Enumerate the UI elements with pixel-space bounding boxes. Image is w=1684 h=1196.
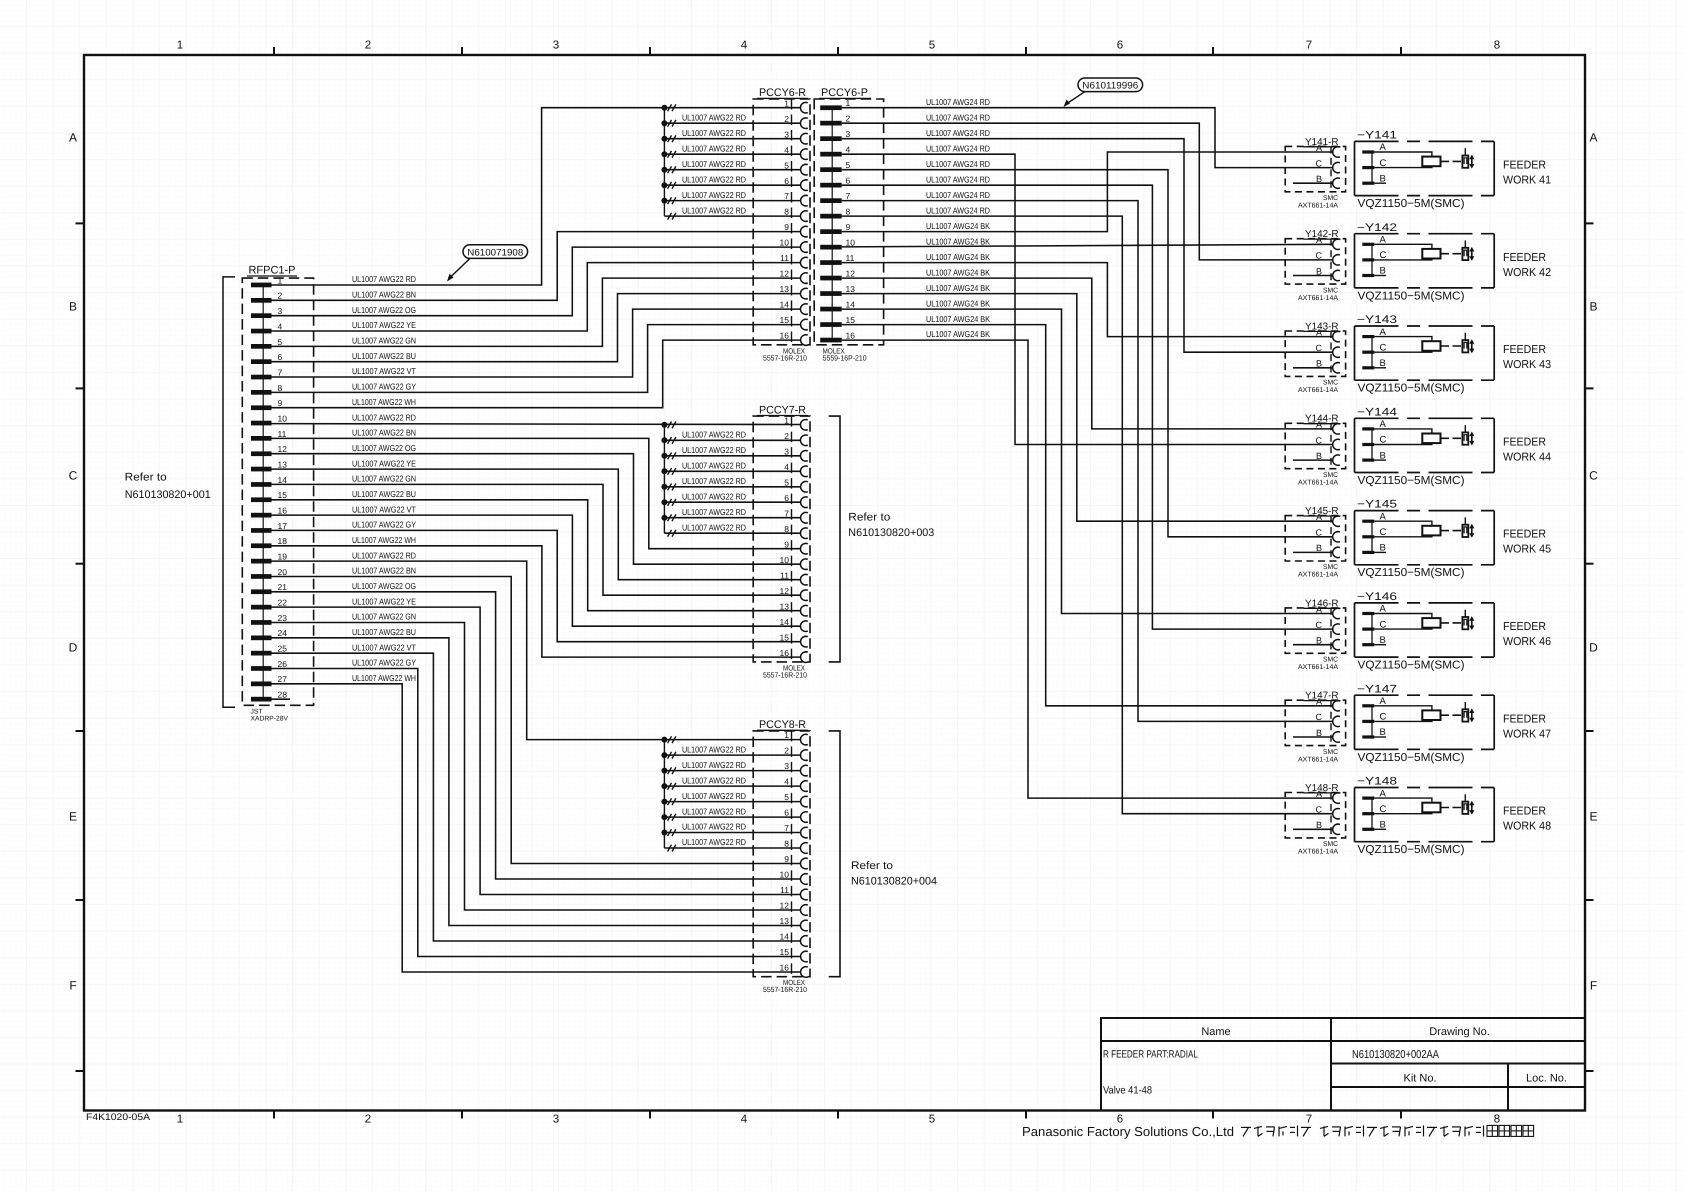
svg-text:AXT661-14A: AXT661-14A [1298, 479, 1338, 486]
PCCY7-R pin 4 contact [800, 466, 807, 477]
connector PCCY7-R body [753, 416, 810, 662]
RFPC1-P pin 18 contact [251, 543, 272, 548]
valve -Y148 terminal C [1362, 812, 1374, 815]
PCCY6-P pin 1 contact [820, 105, 842, 110]
Y145-R pin B contact [1333, 547, 1340, 557]
junction dot PCCY8 pin 4 [661, 783, 667, 789]
splice marks PCCY8 pin 7 [668, 829, 672, 836]
valve -Y145 pilot body [1462, 525, 1468, 537]
svg-text:2: 2 [278, 291, 283, 301]
svg-text:5: 5 [846, 160, 851, 170]
PCCY7-R pin 12 contact [800, 590, 807, 601]
Y142-R pin B stub wire [1293, 275, 1333, 277]
svg-text:AXT661-14A: AXT661-14A [1298, 849, 1338, 856]
valve -Y148 pilot inner [1464, 804, 1467, 810]
splice marks PCCY7 pin 4 [668, 468, 672, 475]
svg-text:UL1007 AWG22 RD: UL1007 AWG22 RD [682, 491, 746, 501]
connector Y147-R body [1285, 700, 1345, 745]
PCCY6-P pin 7 contact [820, 198, 842, 203]
PCCY6-R pin 16 contact [801, 335, 808, 346]
valve -Y146 terminal A [1362, 612, 1374, 615]
svg-text:SMC: SMC [1323, 472, 1338, 479]
svg-text:14: 14 [780, 932, 790, 942]
svg-text:10: 10 [780, 238, 790, 248]
svg-text:FEEDER: FEEDER [1503, 252, 1546, 264]
Y148-R pin B stub wire [1293, 828, 1333, 830]
wire RFPC1.12 to PCCY7.10 [272, 454, 801, 565]
splice marks PCCY8 pin 3 [668, 767, 672, 774]
bracket refer-to PCCY8 [829, 731, 840, 977]
valve -Y141 coil loop [1374, 152, 1432, 168]
svg-text:Loc. No.: Loc. No. [1526, 1073, 1567, 1085]
svg-text:SMC: SMC [1323, 287, 1338, 294]
Y146-R pin B stub wire [1293, 644, 1333, 646]
connector Y143-R body [1285, 331, 1345, 376]
valve -Y147 coil loop [1374, 706, 1432, 722]
Y146-R pin C contact [1333, 624, 1340, 634]
svg-text:UL1007 AWG22 RD: UL1007 AWG22 RD [682, 522, 746, 532]
svg-text:E: E [69, 810, 77, 824]
wire PCCY6-P.2 to Y142.C [842, 123, 1333, 260]
svg-text:28: 28 [278, 690, 288, 700]
junction dot PCCY6 pin 2 [661, 120, 667, 126]
splice marks PCCY6 pin 6 [668, 182, 672, 189]
connector Y147-R inner edge [1330, 700, 1332, 745]
svg-text:−Y141: −Y141 [1357, 130, 1397, 142]
frame tick right row 5 [1585, 1070, 1594, 1072]
bus wire PCCY7 pin 7 [664, 517, 800, 519]
RFPC1-P pin 6 contact [251, 359, 272, 364]
frame tick top col5/6 [1025, 47, 1027, 55]
valve -Y147 terminal A [1362, 704, 1374, 707]
svg-text:UL1007 AWG24 BK: UL1007 AWG24 BK [926, 221, 990, 231]
Y141-R pin C contact [1333, 162, 1340, 172]
connector PCCY6-R inner edge [791, 99, 793, 345]
svg-text:7: 7 [784, 508, 789, 518]
svg-text:12: 12 [846, 269, 856, 279]
svg-text:A: A [1316, 512, 1322, 522]
connector RFPC1-P centerline [262, 285, 264, 699]
valve -Y142 actuation arrow [1469, 247, 1474, 261]
svg-text:VQZ1150−5M(SMC): VQZ1150−5M(SMC) [1358, 660, 1465, 672]
svg-text:3: 3 [846, 129, 851, 139]
svg-text:FEEDER: FEEDER [1503, 621, 1546, 633]
svg-text:19: 19 [278, 552, 288, 562]
svg-text:13: 13 [780, 916, 790, 926]
PCCY8-R pin 16 contact [801, 967, 808, 978]
svg-text:UL1007 AWG22 OG: UL1007 AWG22 OG [352, 443, 416, 453]
svg-text:C: C [1316, 620, 1323, 630]
connector PCCY6-R label underline [757, 97, 808, 99]
svg-text:3: 3 [553, 1114, 559, 1126]
svg-text:6: 6 [278, 352, 283, 362]
svg-text:PCCY8-R: PCCY8-R [759, 719, 806, 731]
bus wire PCCY6 pin 3 [664, 138, 800, 140]
RFPC1-P pin 13 contact [251, 467, 272, 472]
svg-text:13: 13 [846, 284, 856, 294]
valve -Y146 pilot stem [1464, 610, 1466, 617]
svg-text:UL1007 AWG24 BK: UL1007 AWG24 BK [926, 236, 990, 246]
valve -Y141 pilot body [1462, 156, 1468, 168]
svg-text:SMC: SMC [1323, 380, 1338, 387]
connector Y148-R body [1285, 793, 1345, 838]
svg-text:UL1007 AWG24 BK: UL1007 AWG24 BK [926, 252, 990, 262]
svg-text:3: 3 [553, 40, 559, 52]
PCCY7-R pin 3 contact [800, 451, 807, 462]
svg-text:UL1007 AWG22 BU: UL1007 AWG22 BU [352, 351, 416, 361]
Y143-R pin C contact [1333, 347, 1340, 357]
connector Y142-R label underline [1304, 238, 1341, 240]
svg-text:UL1007 AWG22 YE: UL1007 AWG22 YE [352, 320, 416, 330]
svg-text:5: 5 [784, 160, 789, 170]
svg-text:UL1007 AWG22 OG: UL1007 AWG22 OG [352, 305, 416, 315]
valve -Y142 pilot inner [1464, 250, 1467, 256]
valve -Y141 body [1355, 141, 1495, 195]
valve -Y148 pin B lead [1374, 828, 1386, 830]
wire PCCY6-P.9 to Y141.A [842, 152, 1333, 232]
wire RFPC1.22 to PCCY8.11 [272, 607, 801, 894]
PCCY7-R pin 5 contact [801, 481, 808, 492]
svg-text:10: 10 [278, 414, 288, 424]
svg-text:2: 2 [365, 1114, 371, 1126]
Y146-R pin B contact [1333, 640, 1340, 650]
valve -Y144 body [1355, 418, 1495, 472]
splice marks PCCY7 pin 5 [668, 484, 672, 491]
svg-text:10: 10 [780, 870, 790, 880]
junction dot PCCY7 pin 4 [661, 468, 667, 474]
PCCY8-R pin 6 contact [801, 812, 808, 823]
connector Y146-R body [1285, 608, 1345, 653]
valve -Y144 coil loop [1374, 429, 1432, 445]
svg-text:4: 4 [278, 321, 283, 331]
splice marks PCCY7 pin 2 [668, 437, 672, 444]
frame tick left row 0 [76, 222, 85, 224]
connector PCCY6-P label underline [819, 97, 871, 99]
PCCY6-P pin 3 contact [820, 136, 842, 141]
svg-text:12: 12 [278, 444, 288, 454]
svg-text:UL1007 AWG24 RD: UL1007 AWG24 RD [926, 159, 990, 169]
valve -Y145 link dashes [1441, 530, 1462, 532]
svg-text:A: A [1316, 789, 1322, 799]
svg-text:1: 1 [784, 415, 789, 425]
junction dot PCCY8 pin 3 [661, 768, 667, 774]
valve -Y143 pilot inner [1464, 342, 1467, 348]
junction dot PCCY7 pin 1 [661, 422, 667, 428]
svg-text:1: 1 [784, 98, 789, 108]
junction dot PCCY8 pin 2 [661, 752, 667, 758]
svg-text:UL1007 AWG24 RD: UL1007 AWG24 RD [926, 205, 990, 215]
bus wire PCCY7 pin 3 [664, 455, 800, 457]
frame tick top col4/5 [837, 47, 839, 55]
valve -Y145 terminal C [1362, 535, 1374, 538]
valve -Y147 terminal C [1362, 720, 1374, 723]
frame tick bottom col7/8 [1400, 1111, 1402, 1119]
svg-text:9: 9 [846, 222, 851, 232]
svg-text:RFPC1-P: RFPC1-P [249, 265, 296, 277]
valve -Y148 pilot stem [1464, 794, 1466, 801]
frame tick right row 2 [1585, 563, 1594, 565]
valve -Y143 terminal A [1362, 335, 1374, 338]
RFPC1-P pin 21 contact [251, 589, 272, 594]
frame tick left row 1 [76, 387, 85, 389]
svg-text:UL1007 AWG22 RD: UL1007 AWG22 RD [682, 190, 746, 200]
splice marks PCCY8 pin 5 [668, 798, 672, 805]
svg-text:9: 9 [278, 398, 283, 408]
svg-text:21: 21 [278, 582, 288, 592]
splice marks PCCY6 pin 7 [668, 197, 672, 204]
valve -Y147 terminal B [1362, 735, 1374, 738]
svg-text:7: 7 [1306, 1114, 1312, 1126]
Y147-R pin A contact [1333, 701, 1340, 711]
svg-text:6: 6 [784, 176, 789, 186]
wire PCCY6-P.16 to Y148.A [842, 340, 1333, 798]
PCCY7-R pin 7 contact [801, 512, 808, 523]
PCCY8-R pin 13 contact [800, 920, 807, 931]
svg-text:UL1007 AWG22 BU: UL1007 AWG22 BU [352, 489, 416, 499]
RFPC1-P pin 3 contact [251, 313, 272, 318]
connector PCCY6-P centerline [831, 108, 833, 340]
splice marks PCCY7 pin 6 [668, 499, 672, 506]
frame tick top col6/7 [1212, 47, 1214, 55]
svg-text:PCCY6-P: PCCY6-P [821, 87, 868, 99]
connector PCCY8-R label underline [757, 729, 808, 731]
wire RFPC1.26 to PCCY8.15 [272, 669, 801, 957]
valve -Y144 terminal C [1362, 443, 1374, 446]
valve -Y143 terminal B [1362, 366, 1374, 369]
svg-text:C: C [69, 469, 78, 483]
connector Y145-R body [1285, 516, 1345, 561]
junction dot PCCY7 pin 5 [661, 484, 667, 490]
svg-text:A: A [1316, 420, 1322, 430]
PCCY7-R pin 13 contact [800, 605, 807, 616]
svg-text:A: A [69, 131, 77, 145]
svg-text:2: 2 [784, 746, 789, 756]
svg-text:20: 20 [278, 567, 288, 577]
RFPC1-P pin 25 contact [251, 651, 272, 656]
wire RFPC1.24 to PCCY8.13 [272, 638, 801, 926]
PCCY6-P pin 4 contact [820, 152, 842, 157]
junction dot PCCY8 pin 1 [661, 737, 667, 743]
svg-text:UL1007 AWG22 RD: UL1007 AWG22 RD [682, 174, 746, 184]
wire RFPC1.5 to PCCY6.12 [272, 278, 801, 346]
valve -Y144 actuation arrow [1469, 432, 1474, 446]
svg-text:14: 14 [278, 475, 288, 485]
valve -Y144 terminal A [1362, 427, 1374, 430]
frame tick bottom col2/3 [461, 1111, 463, 1119]
svg-text:Refer to: Refer to [851, 860, 893, 872]
svg-text:8: 8 [784, 839, 789, 849]
bracket refer-to RFPC1 [223, 277, 235, 707]
svg-text:UL1007 AWG24 RD: UL1007 AWG24 RD [926, 97, 990, 107]
connector RFPC1-P label underline [247, 275, 297, 277]
svg-text:8: 8 [784, 207, 789, 217]
svg-text:UL1007 AWG22 GN: UL1007 AWG22 GN [352, 474, 416, 484]
valve -Y141 solenoid coil [1422, 157, 1440, 167]
svg-text:SMC: SMC [1323, 749, 1338, 756]
bus wire PCCY6 pin 4 [664, 153, 800, 155]
bus wire PCCY8 pin 4 [664, 785, 800, 787]
RFPC1-P pin 9 contact [251, 405, 272, 410]
RFPC1-P pin 27 contact [251, 682, 272, 687]
wire PCCY6-P.8 to Y148.C [842, 216, 1333, 814]
svg-text:15: 15 [846, 315, 856, 325]
svg-text:UL1007 AWG22 RD: UL1007 AWG22 RD [682, 822, 746, 832]
valve -Y142 terminal link [1371, 244, 1373, 275]
svg-text:WORK 41: WORK 41 [1503, 175, 1551, 187]
valve -Y143 terminal link [1371, 337, 1373, 368]
wire RFPC1.10 to PCCY7 bus (common feed) [272, 423, 801, 426]
junction dot PCCY8 pin 5 [661, 799, 667, 805]
svg-text:UL1007 AWG24 BK: UL1007 AWG24 BK [926, 314, 990, 324]
svg-text:Refer to: Refer to [125, 472, 167, 484]
connector PCCY6-R body [753, 99, 810, 345]
PCCY6-P pin 6 contact [820, 183, 842, 188]
Y144-R pin C contact [1333, 439, 1340, 449]
svg-text:C: C [1316, 251, 1323, 261]
svg-text:WORK 45: WORK 45 [1503, 544, 1551, 556]
svg-text:12: 12 [780, 269, 790, 279]
wire RFPC1.6 to PCCY6.13 [272, 294, 801, 362]
RFPC1-P pin 19 contact [251, 559, 272, 564]
PCCY7-R pin 10 contact [800, 559, 807, 570]
splice marks PCCY8 pin 4 [668, 783, 672, 790]
splice marks PCCY6 pin 4 [668, 151, 672, 158]
svg-text:3: 3 [784, 446, 789, 456]
PCCY7-R pin 9 contact [800, 543, 807, 554]
svg-text:−Y145: −Y145 [1357, 499, 1397, 511]
valve -Y143 body [1355, 326, 1495, 380]
svg-text:A: A [1589, 131, 1597, 145]
svg-text:4: 4 [784, 145, 789, 155]
svg-text:UL1007 AWG22 YE: UL1007 AWG22 YE [352, 458, 416, 468]
svg-text:4: 4 [846, 145, 851, 155]
connector Y144-R label underline [1304, 423, 1341, 425]
connector Y144-R inner edge [1330, 423, 1332, 468]
connector Y145-R label underline [1304, 515, 1341, 517]
bus common wire PCCY7 vertical [663, 425, 665, 533]
svg-text:UL1007 AWG22 WH: UL1007 AWG22 WH [352, 673, 416, 683]
svg-text:N610130820+003: N610130820+003 [848, 527, 934, 539]
PCCY6-R pin 10 contact [800, 242, 807, 253]
Y144-R pin A contact [1333, 424, 1340, 434]
valve -Y142 solenoid coil [1422, 249, 1440, 259]
PCCY6-R pin 5 contact [801, 164, 808, 175]
svg-text:9: 9 [784, 539, 789, 549]
svg-text:6: 6 [784, 808, 789, 818]
RFPC1-P pin 20 contact [251, 574, 272, 579]
Y143-R pin B contact [1333, 363, 1340, 373]
PCCY7-R pin 16 contact [801, 652, 808, 663]
frame tick left row 5 [76, 1070, 85, 1072]
connector Y147-R label underline [1304, 700, 1341, 702]
splice marks PCCY8 pin 1 [668, 736, 672, 743]
Y148-R pin A contact [1333, 793, 1340, 803]
valve -Y143 link dashes [1441, 345, 1462, 347]
RFPC1-P pin 4 contact [251, 329, 272, 334]
bus wire PCCY8 pin 2 [664, 754, 800, 756]
svg-text:5557-16R-210: 5557-16R-210 [763, 353, 807, 362]
frame tick top col7/8 [1400, 47, 1402, 55]
valve -Y148 body [1355, 788, 1495, 842]
splice marks PCCY7 pin 3 [668, 453, 672, 460]
connector Y145-R inner edge [1330, 516, 1332, 561]
wire RFPC1.23 to PCCY8.12 [272, 623, 801, 911]
valve -Y146 link dashes [1441, 622, 1462, 624]
Y143-R pin B stub wire [1293, 367, 1333, 369]
PCCY8-R pin 7 contact [801, 827, 808, 838]
splice marks PCCY7 pin 7 [668, 514, 672, 521]
valve -Y148 coil loop [1374, 798, 1432, 814]
RFPC1-P pin 11 contact [251, 436, 272, 441]
RFPC1-P pin 8 contact [251, 390, 272, 395]
svg-text:UL1007 AWG22 GN: UL1007 AWG22 GN [352, 336, 416, 346]
splice marks PCCY8 pin 2 [668, 752, 672, 759]
bracket refer-to PCCY7 [829, 416, 840, 662]
svg-text:13: 13 [780, 284, 790, 294]
svg-text:D: D [69, 641, 78, 655]
wire RFPC1.7 to PCCY6.14 [272, 309, 801, 377]
frame tick top col3/4 [649, 47, 651, 55]
valve -Y141 pilot inner [1464, 158, 1467, 164]
valve -Y141 terminal A [1362, 150, 1374, 153]
svg-text:C: C [1316, 343, 1323, 353]
junction dot PCCY7 pin 6 [661, 499, 667, 505]
svg-text:2: 2 [784, 431, 789, 441]
svg-text:AXT661-14A: AXT661-14A [1298, 203, 1338, 210]
svg-text:F: F [69, 979, 76, 993]
valve -Y142 pilot body [1462, 248, 1468, 260]
svg-text:UL1007 AWG24 RD: UL1007 AWG24 RD [926, 190, 990, 200]
wire RFPC1.25 to PCCY8.14 [272, 653, 801, 941]
svg-text:UL1007 AWG22 RD: UL1007 AWG22 RD [352, 274, 416, 284]
PCCY8-R pin 3 contact [800, 765, 807, 776]
junction dot PCCY6 pin 7 [661, 198, 667, 204]
svg-text:UL1007 AWG24 RD: UL1007 AWG24 RD [926, 143, 990, 153]
svg-text:8: 8 [1494, 1114, 1500, 1126]
svg-text:WORK 44: WORK 44 [1503, 451, 1552, 463]
valve -Y142 pilot stem [1464, 241, 1466, 248]
PCCY7-R pin 1 contact [800, 420, 807, 431]
svg-text:15: 15 [278, 490, 288, 500]
frame tick top col2/3 [461, 47, 463, 55]
splice marks PCCY7 pin 1 [668, 422, 672, 429]
wire PCCY6-P.15 to Y147.A [842, 325, 1333, 706]
splice marks PCCY8 pin 8 [668, 845, 672, 852]
PCCY7-R pin 14 contact [800, 621, 807, 632]
Y147-R pin C contact [1333, 716, 1340, 726]
svg-text:AXT661-14A: AXT661-14A [1298, 572, 1338, 579]
connector Y142-R body [1285, 239, 1345, 284]
svg-text:7: 7 [278, 367, 283, 377]
svg-text:8: 8 [1494, 40, 1500, 52]
PCCY6-R pin 13 contact [800, 288, 807, 299]
svg-text:F: F [1590, 979, 1597, 993]
connector Y143-R inner edge [1330, 331, 1332, 376]
svg-text:−Y142: −Y142 [1357, 222, 1397, 234]
svg-text:2: 2 [784, 114, 789, 124]
wire PCCY6-P.13 to Y145.A [842, 294, 1333, 522]
valve -Y146 pilot inner [1464, 619, 1467, 625]
bus wire PCCY7 pin 8 [664, 532, 800, 534]
svg-text:WORK 47: WORK 47 [1503, 728, 1551, 740]
bus wire PCCY6 pin 8 [664, 215, 800, 217]
Y143-R pin A contact [1333, 331, 1340, 341]
svg-text:1: 1 [177, 40, 183, 52]
wire RFPC1.16 to PCCY7.14 [272, 515, 801, 626]
svg-text:VQZ1150−5M(SMC): VQZ1150−5M(SMC) [1358, 290, 1465, 302]
Y141-R pin A contact [1333, 147, 1340, 157]
PCCY7-R pin 11 contact [800, 574, 807, 585]
